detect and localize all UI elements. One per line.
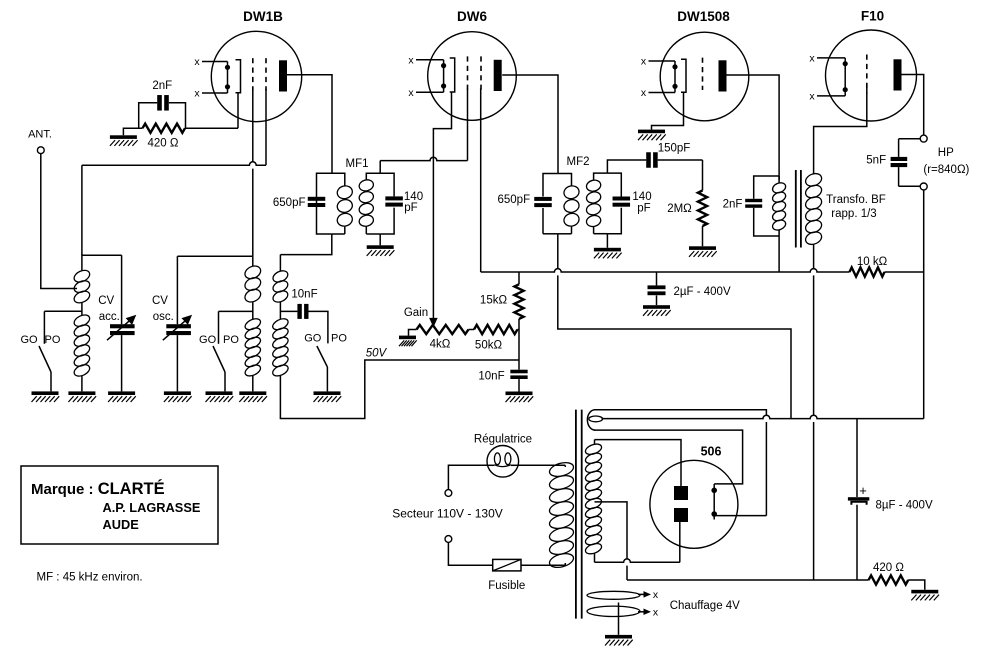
ground (oscillator coil) <box>239 391 266 395</box>
ground (CV acc) <box>108 391 135 395</box>
svg-text:x: x <box>194 56 200 68</box>
svg-text:506: 506 <box>701 444 722 458</box>
wire MF2 secondary top to 150pF <box>607 160 646 173</box>
tube envelope DW1B <box>211 31 301 121</box>
node antenna-grid rail <box>81 165 83 254</box>
ground (oscillator switch) <box>206 391 233 395</box>
filament DW1508 <box>649 60 676 62</box>
potentiometer wiper arrow (Gain) <box>430 318 437 326</box>
capacitor 140pF (MF2 secondary) <box>613 197 631 201</box>
wire pot left to ground <box>409 330 417 336</box>
svg-text:PO: PO <box>45 334 61 346</box>
svg-text:x: x <box>194 88 200 100</box>
svg-text:Chauffage 4V: Chauffage 4V <box>670 600 740 612</box>
wire DW1508 anode to output transformer <box>726 75 779 180</box>
MF2 primary box <box>543 174 557 197</box>
inductor HT secondary winding <box>584 442 603 456</box>
svg-text:DW6: DW6 <box>457 9 487 24</box>
wire 10k to B+ rail <box>885 271 924 273</box>
wire bias line (B-) <box>627 579 869 581</box>
capacitor 2&#181;F - 400V <box>656 272 658 285</box>
wire DW1B anode to MF1 <box>287 75 332 174</box>
wire filament loop to rectifier filament top <box>594 430 743 484</box>
wire HT top to rectifier anode 1 <box>595 440 682 486</box>
cathode DW1508 <box>681 59 686 92</box>
inductor coupling coil upper <box>279 255 281 272</box>
grid 1 of F10 <box>866 55 868 94</box>
wire filament loop to rectifier filament (hops B+ line) <box>594 410 766 516</box>
svg-text:pF: pF <box>637 202 650 214</box>
svg-text:+: + <box>859 483 867 498</box>
wire oscillator tap to switch <box>219 310 253 312</box>
svg-text:x: x <box>641 56 647 68</box>
wire HP return rail <box>923 190 925 419</box>
ground (MF1 secondary) <box>367 245 394 249</box>
svg-text:acc.: acc. <box>99 311 120 323</box>
wire DW1B cathode <box>237 93 239 129</box>
wire DW1B grid 1 drop (hops antenna grid wire) <box>252 89 254 256</box>
ground (coupling switch) <box>314 391 341 395</box>
capacitor 140pF (MF1 secondary) <box>385 196 403 200</box>
wire 2nF bottom <box>754 208 779 236</box>
wire MF2 secondary to ground <box>606 234 608 248</box>
wire F10 anode to HP <box>901 75 924 136</box>
anode 1 of 506 <box>674 486 688 500</box>
inductor MF2 secondary winding <box>585 179 602 193</box>
svg-text:2nF: 2nF <box>152 80 172 92</box>
resistor 50k&#937; <box>469 329 475 331</box>
svg-text:MF : 45 kHz environ.: MF : 45 kHz environ. <box>37 571 143 583</box>
MF1 secondary box <box>366 173 380 179</box>
wire F10 grid to transformer secondary <box>814 84 867 172</box>
anode DW1508 <box>719 60 727 91</box>
svg-text:pF: pF <box>404 202 417 214</box>
inductor oscillator grid coil upper <box>252 256 254 266</box>
wire heater top with arrow <box>638 593 645 595</box>
wire 10nF to ground <box>518 379 520 391</box>
wire bias resistor to ground <box>123 128 142 135</box>
wire HT bottom to rectifier anode 2 <box>595 559 680 562</box>
svg-text:GO: GO <box>20 334 38 346</box>
wire MF1 secondary top to DW6 grid 1 (hops DW6 cathode wire) <box>379 161 381 174</box>
svg-text:ANT.: ANT. <box>28 129 52 141</box>
wire transformer secondary to bias line (hops HT bus and B+ line) <box>813 245 815 580</box>
capacitor 10nF (oscillator) <box>297 304 301 319</box>
svg-text:Fusible: Fusible <box>488 580 525 592</box>
wire transformer primary to HT bus <box>778 236 780 272</box>
filament of 506 <box>713 484 715 520</box>
svg-text:GO: GO <box>304 333 322 345</box>
svg-text:DW1508: DW1508 <box>677 9 730 24</box>
inductor antenna coil primary section <box>81 254 83 271</box>
ground (MF2 secondary) <box>594 248 621 252</box>
ground (2uF) <box>643 305 670 309</box>
capacitor 150pF (coupling) <box>646 152 651 168</box>
switch GO/PO (oscillator) <box>218 311 220 343</box>
wire coupling coil tap to 10nF <box>280 310 297 312</box>
svg-text:x: x <box>653 589 659 601</box>
svg-text:10 kΩ: 10 kΩ <box>857 256 888 268</box>
wire 420 to ground <box>908 580 925 590</box>
grid 1 of DW6 <box>467 56 469 89</box>
capacitor 2nF (cathode bypass) <box>157 95 162 111</box>
svg-text:2nF: 2nF <box>723 199 743 211</box>
tube envelope 506 <box>650 460 738 548</box>
MF2 secondary box <box>594 173 608 180</box>
svg-text:Marque : CLARTÉ: Marque : CLARTÉ <box>31 479 165 498</box>
switch GO/PO (coupling) <box>317 346 328 367</box>
wire antenna coil to DW1B grid 2 <box>82 162 266 165</box>
inductor antenna coil secondary section <box>72 313 91 329</box>
capacitor CV acc (variable) <box>121 255 123 324</box>
wire DW6 cathode to gain potentiometer <box>433 92 451 320</box>
svg-text:650pF: 650pF <box>273 197 306 209</box>
wire MF2 primary bottom feed (hops HT bus) <box>558 234 791 419</box>
wire switch to ground (antenna) <box>50 372 52 391</box>
svg-text:GO: GO <box>199 334 217 346</box>
wire antenna coil to ground <box>81 375 83 391</box>
wire HP top to 5nF <box>899 138 921 140</box>
svg-text:420 Ω: 420 Ω <box>873 562 904 574</box>
wire CV acc to ground <box>121 335 123 391</box>
svg-text:x: x <box>809 53 815 65</box>
tube envelope F10 <box>826 30 917 121</box>
svg-text:x: x <box>653 607 659 619</box>
ground (gain pot) <box>399 336 416 340</box>
inductor output transformer primary <box>778 176 780 183</box>
svg-text:x: x <box>641 87 647 99</box>
rectifier filament loop (B+ takeoff) <box>587 410 595 430</box>
capacitor 8uF - 400V <box>856 419 858 497</box>
svg-text:Régulatrice: Régulatrice <box>474 434 532 446</box>
ground (CV osc) <box>164 391 191 395</box>
anode DW6 <box>494 60 502 91</box>
svg-text:PO: PO <box>331 333 347 345</box>
svg-text:50kΩ: 50kΩ <box>475 340 503 352</box>
power transformer core <box>575 410 577 619</box>
grid 1 of DW1508 <box>702 58 704 90</box>
wire CV osc to ground <box>176 335 178 391</box>
svg-text:HP: HP <box>938 147 954 159</box>
capacitor 650pF (MF2 primary) <box>534 197 552 201</box>
filament DW1B <box>202 61 228 63</box>
capacitor 10nF (decoupling) <box>510 370 527 374</box>
wire switch to ground (coupling) <box>326 367 328 391</box>
wire HT bus (hops MF2 feed and transformer secondary) <box>481 269 850 272</box>
svg-text:140: 140 <box>632 191 651 203</box>
svg-text:650pF: 650pF <box>497 194 530 206</box>
wire DW1508 cathode to ground <box>652 93 684 130</box>
wire grid rail to CV acc <box>82 254 122 256</box>
svg-text:(r=840Ω): (r=840Ω) <box>923 164 969 176</box>
wire mains bottom to fuse <box>448 542 492 565</box>
tube envelope DW6 <box>428 32 517 121</box>
wire 10nF to switch <box>309 311 328 343</box>
svg-text:AUDE: AUDE <box>103 517 140 532</box>
switch GO/PO (antenna) <box>43 311 45 344</box>
svg-text:420 Ω: 420 Ω <box>148 138 179 150</box>
svg-text:F10: F10 <box>861 9 884 24</box>
inductor output transformer secondary <box>813 173 815 175</box>
terminal mains top <box>445 490 452 497</box>
wire heater bottom with arrow <box>638 611 645 613</box>
svg-text:rapp. 1/3: rapp. 1/3 <box>831 208 876 220</box>
svg-text:CV: CV <box>98 295 114 307</box>
wire heater center tap to ground <box>618 603 620 635</box>
wire fuse to primary <box>521 564 565 566</box>
ground (10nF decoupling) <box>506 392 533 396</box>
wire HT center tap (hops anode 2 wire) <box>595 502 628 580</box>
svg-text:10nF: 10nF <box>478 370 504 382</box>
svg-text:x: x <box>408 54 414 66</box>
anode F10 <box>894 59 902 90</box>
wire antenna tap to waveband switch <box>44 310 82 312</box>
wire 2nF top <box>754 176 779 199</box>
svg-text:5nF: 5nF <box>866 155 886 167</box>
wire antenna lead-in <box>41 154 77 289</box>
svg-text:10nF: 10nF <box>291 289 317 301</box>
wire 506 filament bottom to B+ <box>714 515 766 517</box>
wire MF1 secondary to ground <box>379 234 381 245</box>
svg-text:8µF - 400V: 8µF - 400V <box>876 499 933 511</box>
wire B+ line (hops filament drop and bias drop) <box>602 415 924 418</box>
cathode DW6 <box>450 58 455 92</box>
wire 2nF loop left <box>139 103 158 128</box>
grid 2 of DW6 <box>480 56 482 89</box>
inductor oscillator grid coil lower <box>243 317 262 332</box>
capacitor 2nF (tone) <box>745 199 762 202</box>
wire bias to cathode <box>185 127 238 129</box>
svg-text:MF2: MF2 <box>567 156 590 168</box>
svg-text:50V: 50V <box>366 348 388 360</box>
potentiometer 4k&#937; <box>417 325 469 334</box>
svg-text:A.P. LAGRASSE: A.P. LAGRASSE <box>103 500 201 515</box>
inductor heater winding 4V <box>587 591 640 599</box>
inductor MF2 primary winding <box>563 184 581 200</box>
wire CV osc to oscillator grid coil <box>177 255 252 257</box>
svg-text:2MΩ: 2MΩ <box>667 203 692 215</box>
wire 5nF to HP bottom <box>899 185 921 187</box>
wire lamp to primary <box>518 464 565 466</box>
resistor 10 k&#937; <box>850 267 885 276</box>
ground (DW1508 cathode) <box>638 130 665 134</box>
svg-text:4kΩ: 4kΩ <box>430 339 451 351</box>
svg-text:Secteur 110V - 130V: Secteur 110V - 130V <box>392 507 503 521</box>
terminal mains bottom <box>445 536 452 543</box>
wire mains top to lamp <box>448 465 487 489</box>
svg-text:15kΩ: 15kΩ <box>480 295 508 307</box>
terminal HP top <box>920 135 927 142</box>
capacitor CV osc (variable) <box>176 256 178 324</box>
capacitor 650pF (MF1 primary) <box>308 197 326 201</box>
wire DW1B grid 2 drop <box>265 89 267 165</box>
ground (antenna coil) <box>68 391 95 395</box>
inductor coupling coil lower <box>271 317 290 332</box>
wire 2nF loop right <box>169 103 186 128</box>
svg-text:Gain: Gain <box>404 307 428 319</box>
wire coupling coil to 50V feed <box>280 360 519 419</box>
svg-text:osc.: osc. <box>153 311 174 323</box>
svg-text:2µF - 400V: 2µF - 400V <box>674 286 731 298</box>
inductor MF1 primary winding <box>336 184 354 200</box>
grid 1 of DW1B <box>252 58 254 90</box>
svg-text:PO: PO <box>223 334 239 346</box>
filament F10 <box>817 57 845 59</box>
grid 2 of DW1B <box>265 58 267 90</box>
fuse Fusible <box>493 559 521 571</box>
svg-text:x: x <box>809 91 815 103</box>
ballast lamp Regulatrice <box>487 446 519 478</box>
wire DW6 grid 1 to MF1 secondary <box>467 89 469 161</box>
resistor 2M&#937; (grid leak) <box>702 160 704 191</box>
tube envelope DW1508 <box>660 32 749 121</box>
ground (2M grid leak) <box>689 246 716 250</box>
svg-text:MF1: MF1 <box>346 158 369 170</box>
capacitor 5nF <box>898 139 900 157</box>
ground (bias resistor) <box>911 590 938 594</box>
wire MF1 primary bottom to oscillator coupling coil <box>280 234 331 255</box>
resistor 15k&#937; <box>518 272 520 284</box>
resistor 420&#937; (bias) <box>869 575 909 584</box>
anode DW1B <box>279 60 287 91</box>
MF1 primary box <box>317 173 333 234</box>
wire 150pF to DW1508 grid <box>658 159 703 161</box>
anode 2 of 506 <box>674 508 688 522</box>
filament DW6 <box>416 59 444 61</box>
terminal HP bottom <box>920 183 927 190</box>
nameplate box <box>21 466 218 544</box>
wire oscillator grid coil to ground <box>252 375 254 391</box>
wire DW6 anode to MF2 <box>502 75 558 174</box>
output transformer core <box>795 170 797 248</box>
svg-text:CV: CV <box>152 295 168 307</box>
ground (antenna switch) <box>32 391 59 395</box>
svg-text:Transfo. BF: Transfo. BF <box>826 194 886 206</box>
wire DW6 screen grid to HT bus <box>480 89 482 273</box>
antenna terminal ANT <box>37 147 44 154</box>
inductor MF1 secondary winding <box>358 178 375 192</box>
resistor 420&#937; (bias) <box>143 124 186 133</box>
wire switch to ground (oscillator) <box>224 372 226 391</box>
inductor power transformer primary <box>564 465 566 467</box>
svg-text:x: x <box>408 87 414 99</box>
svg-text:150pF: 150pF <box>658 143 691 155</box>
ground (bias network) <box>110 135 137 139</box>
cathode DW1B <box>236 60 241 93</box>
ground (heater) <box>605 635 632 639</box>
svg-text:DW1B: DW1B <box>243 9 283 24</box>
